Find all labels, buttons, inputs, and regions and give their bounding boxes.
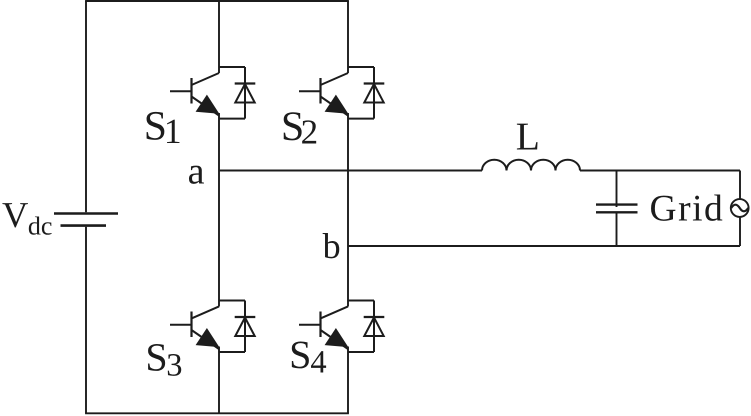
svg-text:1: 1 (164, 111, 182, 151)
svg-text:4: 4 (310, 345, 326, 381)
svg-text:2: 2 (301, 113, 319, 152)
svg-text:S: S (289, 332, 311, 377)
svg-text:L: L (516, 115, 540, 159)
svg-text:b: b (323, 226, 341, 266)
svg-text:V: V (2, 194, 28, 235)
svg-text:S: S (145, 335, 167, 380)
svg-text:dc: dc (28, 212, 53, 241)
svg-text:Grid: Grid (650, 188, 725, 229)
svg-text:a: a (188, 150, 205, 192)
svg-text:3: 3 (166, 347, 182, 383)
